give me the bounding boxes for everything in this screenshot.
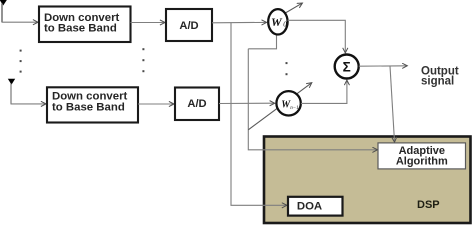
wire W0 output to summer top [288,20,346,52]
svg-text:Σ: Σ [343,60,351,75]
svg-text:DSP: DSP [417,199,440,211]
wire diagonal control arrow out of W0 [285,3,303,13]
dots column left [20,50,22,73]
block: Adaptive Algorithm [378,143,466,169]
weight multiplier Wn-1 [276,91,300,115]
wire A/D 2 to Wn-1 [219,102,274,104]
wire tap from A/D1 output down to DOA [231,23,287,206]
summer sigma [335,55,359,79]
DSP box (tan region) [264,137,471,224]
dots column mid [142,48,144,72]
block: A/D 2 [175,88,219,121]
wire W0 bottom stem to control bus [248,35,276,49]
svg-text:to Base Band: to Base Band [52,101,125,113]
antenna A2 [8,79,15,104]
wire control bus vertical into Adaptive Algorithm [248,49,377,150]
dots column between W0 and Wn-1 [286,62,288,75]
wire A/D 1 to W0 [212,21,266,23]
block: DOA [288,197,343,216]
weight multiplier W0 [268,9,287,34]
svg-text:Algorithm: Algorithm [396,155,448,167]
wire Wn-1 output to summer bottom [301,81,347,104]
svg-text:W: W [271,15,283,29]
wire downconvert 2 to A/D 2 [138,103,174,105]
label: Output signal [421,66,459,88]
block: A/D 1 [166,9,212,41]
svg-text:to Base Band: to Base Band [44,23,117,35]
wire downconvert 1 to A/D 1 [131,22,165,24]
wire summer output [359,65,407,67]
svg-text:A/D: A/D [187,98,206,110]
wire antenna A2 to downconvert 2 [11,103,46,105]
svg-text:DOA: DOA [297,201,322,213]
svg-text:0: 0 [283,21,287,29]
wire output branch down to Adaptive Algorithm [390,66,395,142]
svg-text:n−1: n−1 [290,106,298,111]
antenna A1 [0,0,8,22]
wire diagonal control arrow through Wn-1 [248,83,311,130]
block: Down convert to Base Band 1 [39,7,131,43]
wire antenna A1 to downconvert 1 [2,21,38,23]
svg-text:signal: signal [421,75,454,87]
block: Down convert to Base Band 2 [47,87,138,122]
svg-text:A/D: A/D [179,20,198,32]
